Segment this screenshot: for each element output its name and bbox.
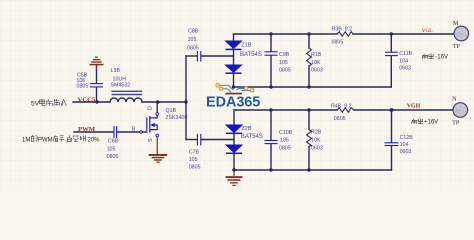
- svg-text:0805: 0805: [332, 39, 344, 45]
- svg-text:0603: 0603: [399, 66, 411, 72]
- svg-text:0805: 0805: [279, 145, 291, 151]
- svg-text:C9B: C9B: [279, 52, 290, 58]
- svg-text:SM4532: SM4532: [111, 82, 131, 88]
- svg-text:5V: 5V: [31, 101, 40, 108]
- svg-text:R4B 9.2: R4B 9.2: [331, 104, 352, 110]
- svg-text:104: 104: [399, 58, 408, 64]
- svg-text:PWM: PWM: [78, 126, 96, 133]
- svg-text:PWM: PWM: [38, 137, 53, 143]
- svg-text:+16V: +16V: [424, 120, 438, 126]
- svg-text:S: S: [148, 138, 154, 142]
- svg-text:BAT54S: BAT54S: [241, 134, 263, 140]
- svg-text:0603: 0603: [400, 149, 412, 155]
- svg-text:N: N: [452, 95, 457, 102]
- svg-text:C7B: C7B: [189, 149, 200, 155]
- svg-text:B: B: [132, 126, 136, 132]
- svg-text:M: M: [453, 20, 459, 27]
- svg-text:D: D: [148, 106, 154, 110]
- svg-text:105: 105: [189, 157, 198, 163]
- svg-text:Z1B: Z1B: [241, 42, 252, 48]
- svg-text:R1B: R1B: [311, 52, 322, 58]
- svg-text:C6B: C6B: [108, 138, 119, 144]
- svg-text:0603: 0603: [311, 68, 323, 74]
- svg-text:EDA365: EDA365: [206, 94, 260, 110]
- svg-text:C8B: C8B: [188, 29, 199, 35]
- svg-text:VCC5: VCC5: [78, 96, 96, 103]
- svg-text:2SK3400: 2SK3400: [166, 115, 188, 121]
- svg-text:105: 105: [280, 138, 289, 144]
- svg-text:20%: 20%: [88, 137, 101, 143]
- svg-text:C11B: C11B: [399, 51, 412, 57]
- svg-text:C12B: C12B: [400, 135, 414, 141]
- svg-text:1M: 1M: [22, 137, 30, 143]
- svg-text:10K: 10K: [311, 138, 321, 144]
- svg-text:Q1B: Q1B: [166, 108, 177, 114]
- svg-text:0805: 0805: [187, 45, 199, 51]
- svg-text:-16V: -16V: [435, 55, 448, 61]
- svg-text:104: 104: [400, 142, 409, 148]
- svg-text:R2B: R2B: [311, 130, 322, 136]
- svg-text:Z2B: Z2B: [241, 126, 252, 132]
- svg-text:0805: 0805: [279, 68, 291, 74]
- svg-text:C10B: C10B: [279, 130, 293, 136]
- svg-text:R3B 9.2: R3B 9.2: [332, 27, 353, 33]
- svg-text:TP: TP: [457, 32, 463, 37]
- svg-text:TP: TP: [453, 43, 461, 50]
- svg-text:0805: 0805: [334, 116, 346, 122]
- svg-text:0805: 0805: [107, 154, 119, 160]
- svg-text:0805: 0805: [189, 164, 201, 170]
- svg-text:BAT54S: BAT54S: [240, 52, 262, 58]
- svg-text:TP: TP: [456, 109, 462, 114]
- svg-text:105: 105: [107, 147, 116, 153]
- svg-text:VGH: VGH: [407, 104, 421, 110]
- svg-text:TP: TP: [452, 120, 460, 127]
- svg-text:L3B: L3B: [111, 68, 121, 74]
- svg-text:105: 105: [188, 37, 197, 43]
- svg-text:VGL: VGL: [422, 29, 434, 34]
- svg-text:0805: 0805: [77, 83, 89, 89]
- svg-text:0603: 0603: [311, 145, 323, 151]
- svg-text:105: 105: [279, 60, 288, 66]
- svg-text:10K: 10K: [311, 60, 321, 66]
